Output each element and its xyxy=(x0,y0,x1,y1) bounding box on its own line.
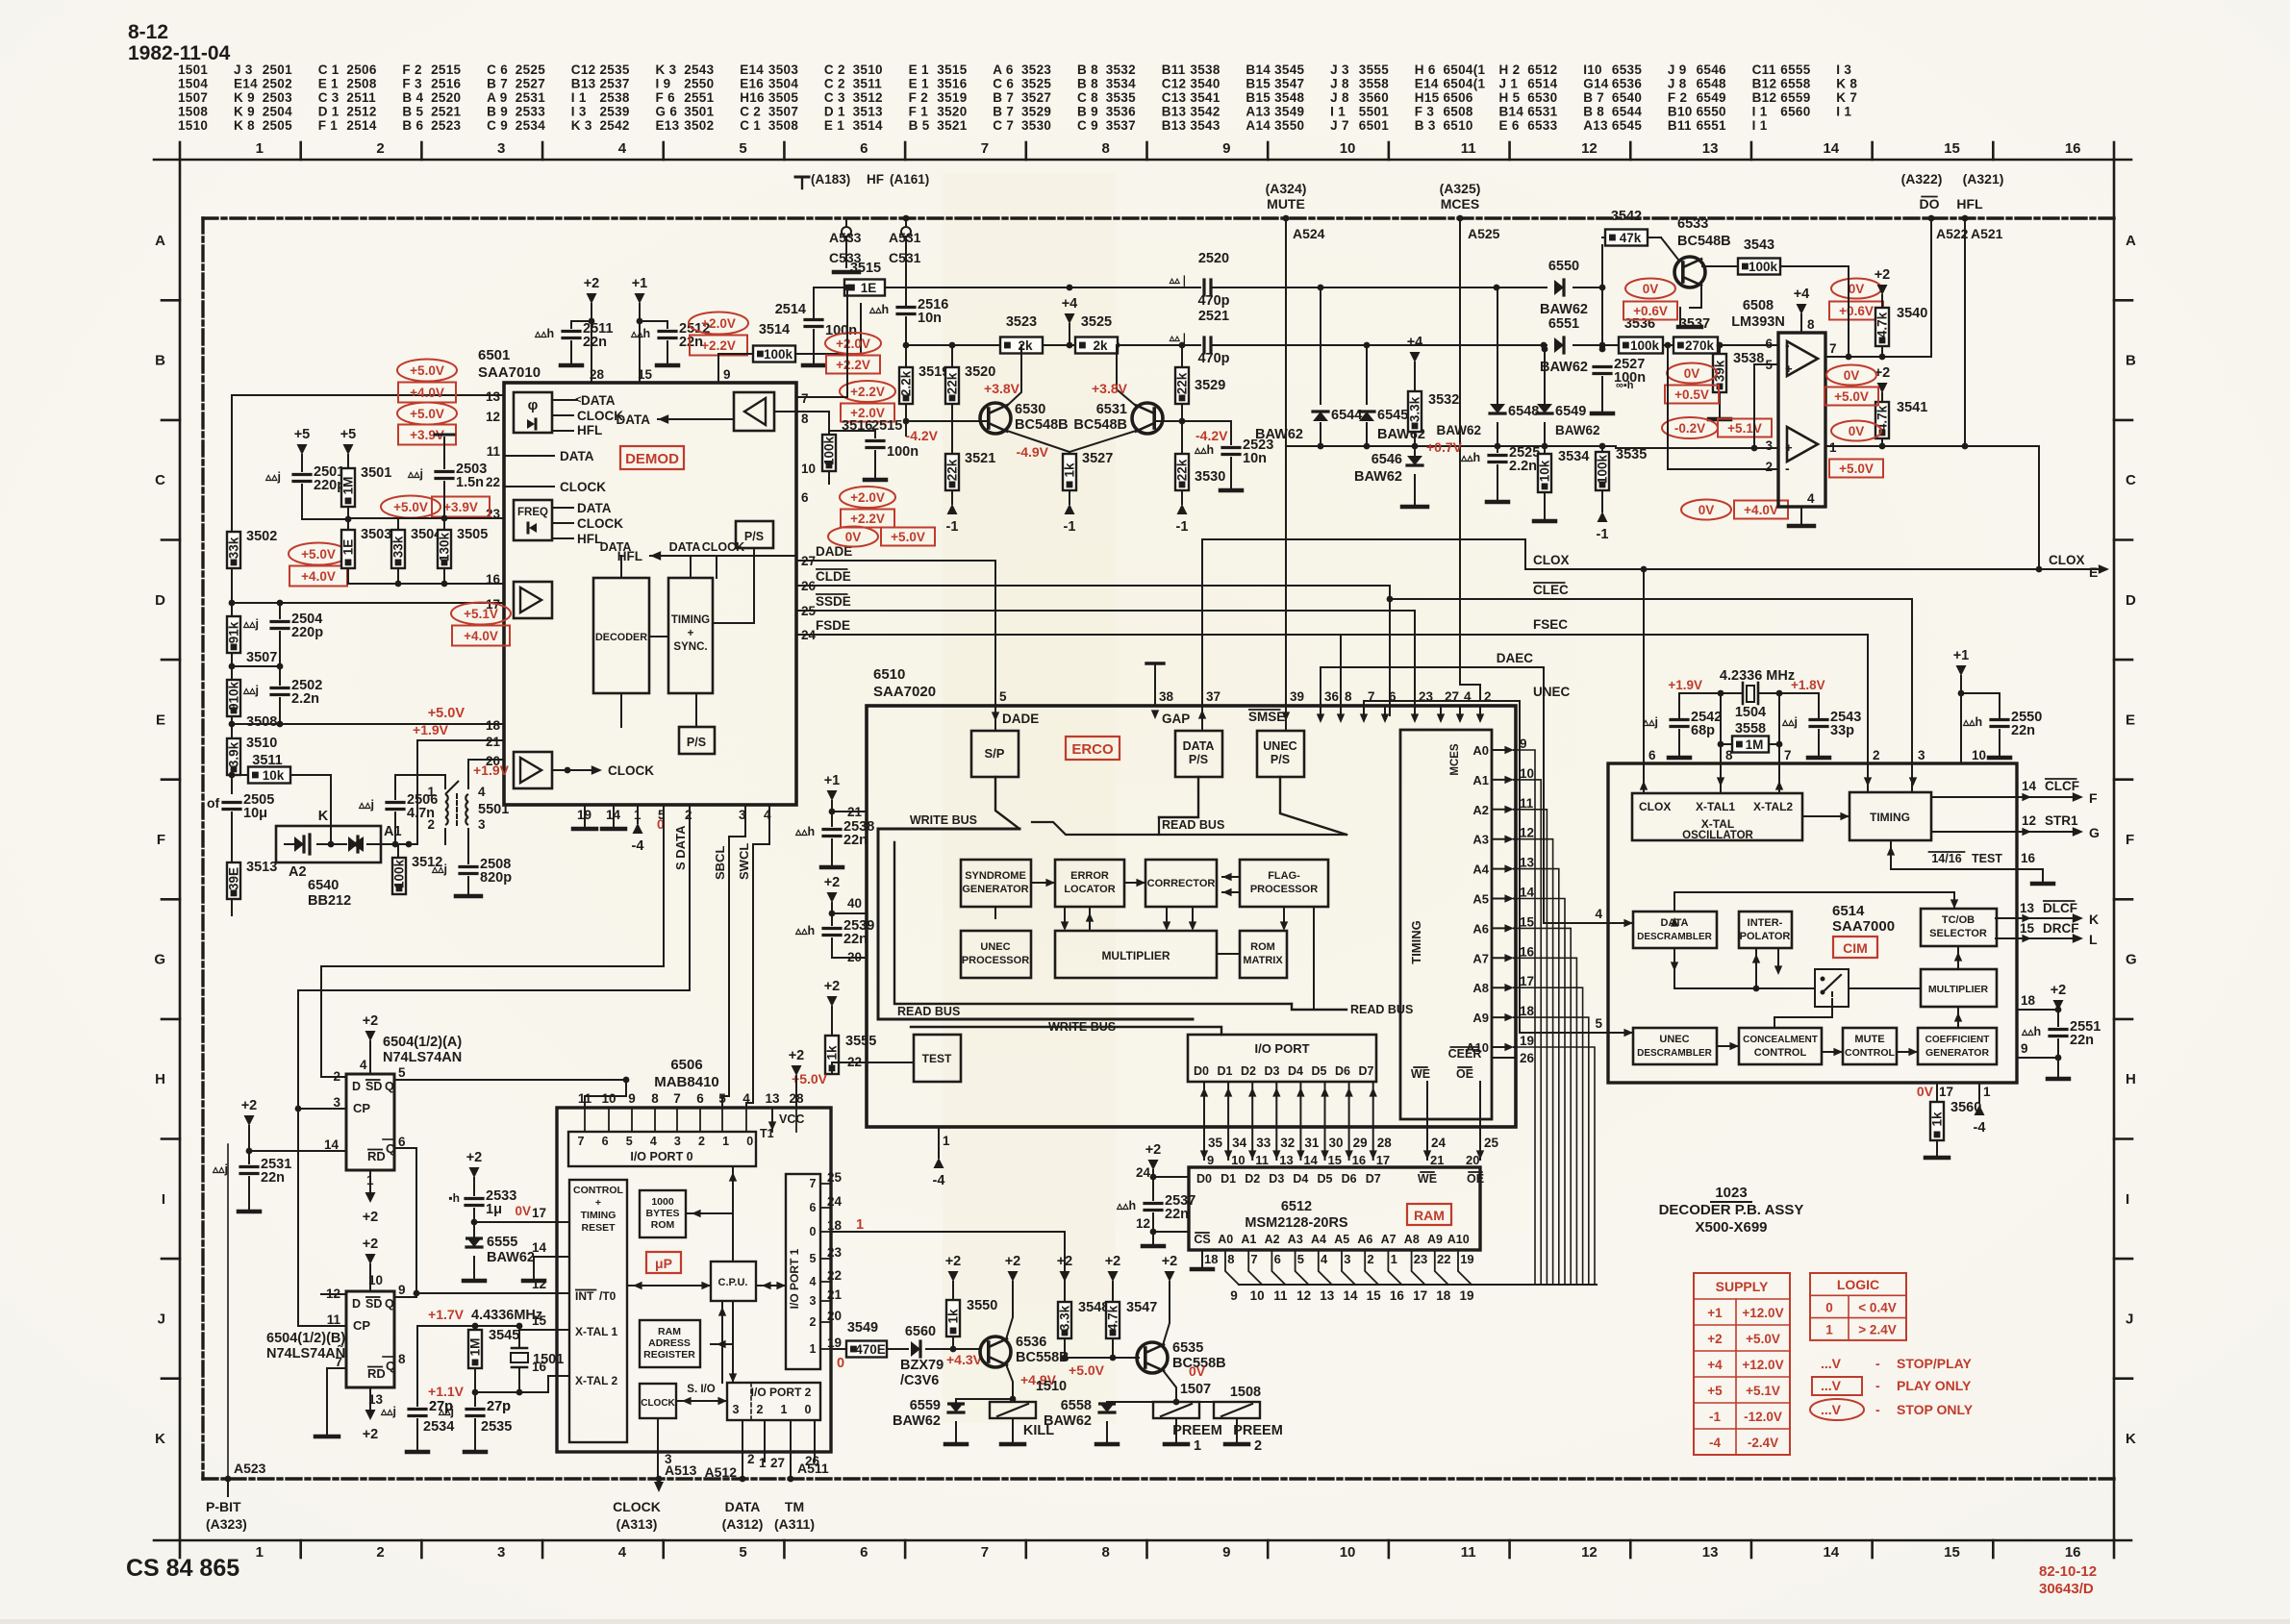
svg-text:BAW62: BAW62 xyxy=(1540,302,1588,317)
svg-text:GAP: GAP xyxy=(1162,712,1190,726)
svg-text:E13: E13 xyxy=(656,118,680,133)
svg-text:1501: 1501 xyxy=(178,62,208,77)
svg-text:K: K xyxy=(318,809,329,824)
svg-text:+1.9V: +1.9V xyxy=(1668,678,1702,692)
svg-text:1: 1 xyxy=(943,1134,950,1148)
svg-text:DADE: DADE xyxy=(1002,712,1039,726)
svg-text:2535: 2535 xyxy=(481,1419,512,1435)
svg-text:19: 19 xyxy=(1459,1288,1473,1303)
svg-text:6: 6 xyxy=(860,140,868,157)
capacitor 2508 820p xyxy=(460,865,477,868)
resistor 3504 33k xyxy=(391,530,405,568)
svg-text:22k: 22k xyxy=(945,459,960,481)
svg-text:18: 18 xyxy=(827,1218,843,1233)
svg-text:3529: 3529 xyxy=(1195,378,1225,393)
svg-text:RAM: RAM xyxy=(658,1326,681,1337)
svg-text:+5.0V: +5.0V xyxy=(301,547,336,562)
capacitor 2512 22n xyxy=(640,320,667,322)
transistor 6535 BC558B xyxy=(1137,1342,1168,1373)
svg-text:MULTIPLIER: MULTIPLIER xyxy=(1101,949,1170,962)
svg-text:1508: 1508 xyxy=(1230,1385,1261,1400)
svg-text:17: 17 xyxy=(1376,1153,1390,1167)
svg-text:2511: 2511 xyxy=(346,90,376,105)
svg-text:1E: 1E xyxy=(341,539,356,556)
svg-text:3560: 3560 xyxy=(1359,90,1389,105)
svg-text:2531: 2531 xyxy=(516,90,545,105)
svg-text:100k: 100k xyxy=(1596,454,1610,484)
svg-text:2534: 2534 xyxy=(516,118,545,133)
svg-text:A9: A9 xyxy=(1472,1011,1489,1025)
svg-text:14: 14 xyxy=(2022,779,2037,793)
svg-text:3515: 3515 xyxy=(937,62,967,77)
svg-text:12: 12 xyxy=(486,410,500,424)
svg-text:B11: B11 xyxy=(1162,62,1186,77)
svg-text:K: K xyxy=(2126,1431,2136,1447)
svg-text:(A311): (A311) xyxy=(774,1516,815,1532)
svg-text:B13: B13 xyxy=(1162,105,1187,119)
svg-text:CS: CS xyxy=(1194,1233,1210,1246)
svg-text:1E: 1E xyxy=(861,281,877,295)
ground pin4 xyxy=(1800,507,1802,524)
svg-text:K 3: K 3 xyxy=(656,62,677,77)
svg-text:2512: 2512 xyxy=(346,105,376,119)
svg-text:J 3: J 3 xyxy=(234,62,253,77)
red callouts near 6501 left pins xyxy=(397,360,457,382)
svg-text:B 5: B 5 xyxy=(909,118,930,133)
svg-text:+5.0V: +5.0V xyxy=(1746,1332,1780,1346)
svg-text:+4: +4 xyxy=(1707,1358,1723,1372)
switch block cim xyxy=(1815,969,1849,1007)
svg-text:▵▵j: ▵▵j xyxy=(438,1405,454,1418)
svg-text:+2.2V: +2.2V xyxy=(701,338,736,353)
diode 6560 BZX79/C3V6 xyxy=(887,1348,908,1350)
svg-text:DATA: DATA xyxy=(669,540,701,554)
svg-text:2521: 2521 xyxy=(1198,309,1229,324)
GAP pin38 label xyxy=(1154,673,1156,706)
svg-text:BAW62: BAW62 xyxy=(487,1250,535,1265)
svg-text:+2: +2 xyxy=(363,1210,379,1225)
IC 6506 MAB8410 outline xyxy=(557,1108,831,1452)
svg-text:SD: SD xyxy=(365,1080,382,1093)
svg-text:ADRESS: ADRESS xyxy=(648,1337,691,1349)
svg-text:3545: 3545 xyxy=(1274,62,1304,77)
TIMING block cim xyxy=(1850,792,1931,840)
wire down to 6544 xyxy=(1320,287,1321,404)
svg-text:FREQ: FREQ xyxy=(517,507,548,518)
svg-text:1.5n: 1.5n xyxy=(456,475,484,490)
svg-text:H: H xyxy=(155,1071,165,1087)
svg-text:D7: D7 xyxy=(1366,1172,1381,1186)
svg-text:22k: 22k xyxy=(945,372,960,394)
pin37 arrow up xyxy=(1201,706,1203,716)
svg-text:0: 0 xyxy=(805,1403,812,1416)
svg-text:P/S: P/S xyxy=(744,530,764,543)
svg-text:6510: 6510 xyxy=(873,666,905,683)
svg-text:1508: 1508 xyxy=(178,105,208,119)
svg-text:21: 21 xyxy=(486,735,501,749)
svg-text:6510: 6510 xyxy=(1444,118,1473,133)
svg-text:0: 0 xyxy=(746,1135,753,1148)
CLCF STR1 outputs xyxy=(1931,796,2077,798)
svg-text:10: 10 xyxy=(1340,140,1356,157)
svg-text:6533: 6533 xyxy=(1677,216,1708,232)
resistor 3503 1E xyxy=(341,530,355,568)
svg-text:FSEC: FSEC xyxy=(1533,617,1568,632)
UNEC PROCESSOR block xyxy=(961,931,1031,978)
svg-text:+4.3V: +4.3V xyxy=(946,1352,983,1367)
svg-text:+2: +2 xyxy=(824,875,841,890)
svg-text:9: 9 xyxy=(2021,1041,2028,1056)
svg-text:S DATA: S DATA xyxy=(673,825,688,870)
svg-text:CLOX: CLOX xyxy=(1639,800,1671,813)
wire line1 from 3515 right xyxy=(885,287,1200,288)
svg-text:1507: 1507 xyxy=(178,90,208,105)
red callouts comparator inputs xyxy=(1667,363,1717,384)
svg-text:+2: +2 xyxy=(363,1237,379,1252)
cpu arrows xyxy=(732,1166,734,1262)
svg-text:3543: 3543 xyxy=(1744,237,1774,253)
svg-text:10: 10 xyxy=(801,462,816,476)
svg-text:A2: A2 xyxy=(289,864,307,880)
svg-text:-4: -4 xyxy=(933,1173,945,1188)
svg-text:▵▵j: ▵▵j xyxy=(431,862,447,876)
svg-text:HF: HF xyxy=(867,172,884,187)
svg-text:-: - xyxy=(1785,461,1790,476)
svg-text:▵▵j: ▵▵j xyxy=(407,467,423,481)
svg-text:9: 9 xyxy=(398,1283,406,1297)
svg-text:10: 10 xyxy=(1972,748,1986,762)
phase detector block inside 6501 xyxy=(514,392,552,433)
svg-text:-4: -4 xyxy=(1709,1436,1721,1450)
svg-text:▵▵h: ▵▵h xyxy=(1962,715,1982,729)
svg-text:30643/D: 30643/D xyxy=(2039,1581,2094,1597)
svg-text:47k: 47k xyxy=(1620,231,1642,245)
supply +5 arrow 3501 xyxy=(343,444,354,455)
svg-text:6504(1: 6504(1 xyxy=(1444,62,1486,77)
frame left edge with row letters xyxy=(179,160,182,1540)
svg-text:22n: 22n xyxy=(843,833,868,848)
svg-text:13: 13 xyxy=(1702,140,1719,157)
wire SBCL from pin3 xyxy=(744,805,746,837)
svg-text:3537: 3537 xyxy=(1106,118,1136,133)
svg-text:9: 9 xyxy=(1222,140,1230,157)
svg-text:TIMING: TIMING xyxy=(1870,811,1910,824)
svg-text:J 3: J 3 xyxy=(1330,62,1349,77)
svg-text:0V: 0V xyxy=(1699,503,1715,517)
svg-text:22n: 22n xyxy=(679,335,703,350)
svg-text:G: G xyxy=(154,952,165,968)
svg-text:I10: I10 xyxy=(1583,62,1602,77)
RAM red label xyxy=(1407,1204,1451,1225)
svg-text:9: 9 xyxy=(1222,1544,1230,1561)
pin 3 CLEC down xyxy=(1909,777,1917,787)
svg-text:P-BIT: P-BIT xyxy=(206,1499,241,1514)
svg-text:(A323): (A323) xyxy=(206,1516,247,1532)
svg-text:6: 6 xyxy=(1274,1252,1281,1266)
svg-text:15: 15 xyxy=(1520,914,1535,929)
svg-text:SBCL: SBCL xyxy=(713,846,727,880)
svg-text:+1.8V: +1.8V xyxy=(1791,678,1825,692)
svg-text:G 6: G 6 xyxy=(656,105,678,119)
svg-text:3541: 3541 xyxy=(1897,400,1927,415)
svg-text:19: 19 xyxy=(1520,1034,1534,1048)
svg-text:UNEC: UNEC xyxy=(980,941,1010,953)
svg-text:3514: 3514 xyxy=(853,118,883,133)
svg-text:3508: 3508 xyxy=(768,118,798,133)
svg-text:1: 1 xyxy=(256,140,264,157)
svg-text:-1: -1 xyxy=(1176,519,1189,535)
DATA CLOCK inputs mid xyxy=(504,455,554,457)
svg-text:TEST: TEST xyxy=(922,1052,952,1065)
svg-text:A6: A6 xyxy=(1472,921,1489,936)
svg-text:+2.0V: +2.0V xyxy=(850,490,885,505)
svg-text:3530: 3530 xyxy=(1021,118,1051,133)
svg-text:3548: 3548 xyxy=(1078,1300,1109,1315)
svg-text:22n: 22n xyxy=(2011,723,2035,738)
svg-text:Q: Q xyxy=(386,1359,395,1373)
wire P-BIT vertical to FF xyxy=(227,1144,229,1479)
svg-text:BAW62: BAW62 xyxy=(1354,469,1402,485)
svg-text:24: 24 xyxy=(1431,1136,1447,1150)
diode 6544 BAW62 xyxy=(1313,412,1328,421)
svg-text:100k: 100k xyxy=(822,436,837,465)
svg-text:D: D xyxy=(2126,592,2136,609)
svg-text:+5: +5 xyxy=(340,427,357,442)
wire CLOX line from pin 37 xyxy=(1202,539,1525,716)
wire 3511 to K of 6540 xyxy=(290,775,331,838)
svg-text:C.P.U.: C.P.U. xyxy=(718,1277,748,1288)
svg-text:+4: +4 xyxy=(1407,335,1423,350)
svg-text:D 1: D 1 xyxy=(824,105,845,119)
svg-text:D7: D7 xyxy=(1359,1064,1374,1078)
svg-text:S/P: S/P xyxy=(985,746,1005,761)
FREQ DATA CLOCK HFL labels xyxy=(552,507,573,509)
svg-text:TIMING: TIMING xyxy=(1409,920,1423,964)
wire 3515 left to 2514 xyxy=(814,287,844,317)
svg-text:CLCF: CLCF xyxy=(2045,779,2079,793)
svg-text:13: 13 xyxy=(1702,1544,1719,1561)
svg-text:BC558B: BC558B xyxy=(1016,1350,1070,1365)
capacitor 2527 100n xyxy=(1601,345,1603,363)
svg-text:B12: B12 xyxy=(1752,90,1777,105)
svg-text:C 6: C 6 xyxy=(993,77,1014,91)
svg-text:TIMING: TIMING xyxy=(581,1210,617,1221)
svg-text:A0: A0 xyxy=(1218,1233,1233,1246)
svg-text:25: 25 xyxy=(827,1170,843,1185)
ground pins 19 14 xyxy=(584,805,586,827)
svg-text:+5.0V: +5.0V xyxy=(410,363,444,378)
svg-text:130k: 130k xyxy=(438,532,452,562)
svg-text:(A321): (A321) xyxy=(1963,171,2004,187)
svg-text:BAW62: BAW62 xyxy=(1044,1413,1092,1429)
svg-text:+2.2V: +2.2V xyxy=(850,385,885,399)
svg-text:4: 4 xyxy=(1807,491,1815,506)
flip-flop 6504(1/2)(B) N74LS74AN xyxy=(346,1291,394,1387)
svg-text:+5.0V: +5.0V xyxy=(428,706,466,721)
transistor 6533 BC548B xyxy=(1674,257,1705,287)
svg-text:A525: A525 xyxy=(1468,226,1500,241)
svg-text:CONTROL: CONTROL xyxy=(573,1185,623,1196)
svg-text:6550: 6550 xyxy=(1697,105,1726,119)
svg-text:UNEC: UNEC xyxy=(1533,685,1571,699)
svg-text:TC/OB: TC/OB xyxy=(1942,914,1975,926)
svg-text:22: 22 xyxy=(1437,1252,1450,1266)
svg-text:▵▵j: ▵▵j xyxy=(264,470,281,484)
P-BIT tap A523 (A323) xyxy=(225,1476,232,1483)
svg-text:-1: -1 xyxy=(1597,527,1609,542)
svg-text:6536: 6536 xyxy=(1612,77,1642,91)
wire node to 47k and down xyxy=(1601,245,1603,349)
svg-text:100k: 100k xyxy=(392,859,407,888)
svg-text:LOGIC: LOGIC xyxy=(1837,1277,1879,1292)
svg-text:5: 5 xyxy=(626,1135,633,1148)
svg-text:3541: 3541 xyxy=(1190,90,1220,105)
svg-text:15: 15 xyxy=(1367,1288,1382,1303)
svg-text:I 3: I 3 xyxy=(1836,62,1851,77)
svg-text:D3: D3 xyxy=(1265,1064,1280,1078)
DATA P/S block xyxy=(1175,731,1222,777)
svg-text:1: 1 xyxy=(1194,1438,1201,1454)
svg-text:DESCRAMBLER: DESCRAMBLER xyxy=(1637,1048,1713,1059)
svg-text:G: G xyxy=(2126,952,2137,968)
svg-text:3: 3 xyxy=(497,140,505,157)
svg-text:2538: 2538 xyxy=(600,90,630,105)
svg-text:CIM: CIM xyxy=(1843,940,1868,956)
svg-text:D5: D5 xyxy=(1312,1064,1327,1078)
svg-text:7: 7 xyxy=(1829,341,1837,356)
svg-text:3555: 3555 xyxy=(845,1034,876,1049)
wire address bundle verticals from SAA7020 xyxy=(1516,750,1535,1285)
svg-text:A7: A7 xyxy=(1381,1233,1397,1246)
svg-text:37: 37 xyxy=(1206,689,1220,704)
svg-text:22: 22 xyxy=(486,475,500,489)
svg-text:2: 2 xyxy=(685,808,692,822)
svg-text:6548: 6548 xyxy=(1508,404,1539,419)
TEST block xyxy=(914,1035,961,1082)
svg-text:I 1: I 1 xyxy=(571,90,587,105)
wire CLEC line xyxy=(1390,598,1912,600)
svg-text:7: 7 xyxy=(673,1091,681,1106)
UNEC P/S block xyxy=(1257,731,1304,777)
svg-text:▵▵h: ▵▵h xyxy=(1460,451,1480,464)
diode 6559 BAW62 xyxy=(955,1399,957,1404)
svg-text:F 1: F 1 xyxy=(318,118,339,133)
wire line2 from 2516 node xyxy=(906,344,981,346)
svg-text:A5: A5 xyxy=(1472,892,1489,907)
svg-text:3513: 3513 xyxy=(853,105,883,119)
svg-text:3521: 3521 xyxy=(965,451,995,466)
svg-text:+0.7V: +0.7V xyxy=(1426,439,1463,455)
svg-text:3505: 3505 xyxy=(457,527,488,542)
svg-text:< 0.4V: < 0.4V xyxy=(1858,1300,1896,1314)
supply +5 arrow 2501 xyxy=(297,444,308,455)
svg-text:2k: 2k xyxy=(1093,338,1108,353)
svg-text:2: 2 xyxy=(376,140,384,157)
svg-text:3504: 3504 xyxy=(768,77,798,91)
svg-text:A13: A13 xyxy=(1583,118,1608,133)
svg-text:10k: 10k xyxy=(1538,460,1552,482)
svg-text:6546: 6546 xyxy=(1697,62,1726,77)
svg-text:E: E xyxy=(156,712,165,728)
svg-text:3530: 3530 xyxy=(1195,469,1225,485)
svg-text:F 2: F 2 xyxy=(402,62,421,77)
svg-text:19: 19 xyxy=(827,1336,842,1350)
capacitor 2535 27p xyxy=(474,1392,476,1406)
svg-text:23: 23 xyxy=(1414,1252,1427,1266)
svg-text:B 5: B 5 xyxy=(402,105,423,119)
svg-text:I 1: I 1 xyxy=(1752,118,1768,133)
svg-text:5: 5 xyxy=(1595,1016,1602,1031)
svg-text:DRCF: DRCF xyxy=(2043,921,2079,936)
svg-text:+4: +4 xyxy=(1794,287,1810,302)
svg-text:DECODER: DECODER xyxy=(595,632,647,643)
svg-text:8: 8 xyxy=(1807,317,1815,332)
svg-text:BZX79: BZX79 xyxy=(900,1358,944,1373)
svg-text:1: 1 xyxy=(781,1403,788,1416)
svg-text:5: 5 xyxy=(718,1091,726,1106)
svg-text:6533: 6533 xyxy=(1527,118,1557,133)
svg-text:4.4336MHz: 4.4336MHz xyxy=(471,1308,542,1323)
svg-text:12: 12 xyxy=(1296,1288,1311,1303)
diode 6555 BAW62 xyxy=(473,1222,475,1238)
svg-text:4: 4 xyxy=(742,1091,750,1106)
svg-text:+: + xyxy=(1785,440,1793,455)
svg-text:F 3: F 3 xyxy=(402,77,422,91)
svg-text:1504: 1504 xyxy=(178,77,208,91)
svg-text:8: 8 xyxy=(651,1091,659,1106)
flip-flop 6504(1/2)(A) N74LS74AN xyxy=(346,1074,394,1170)
svg-text:13: 13 xyxy=(1320,1288,1335,1303)
svg-text:J: J xyxy=(158,1311,165,1327)
CONCEALMENT CONTROL block xyxy=(1739,1028,1822,1064)
svg-text:CLOCK: CLOCK xyxy=(702,540,744,554)
svg-text:0: 0 xyxy=(837,1356,844,1371)
svg-text:-0.2V: -0.2V xyxy=(1674,421,1705,436)
svg-text:12: 12 xyxy=(1520,826,1534,840)
wire pin2 line from 3536/3537 node xyxy=(1668,345,1778,469)
svg-text:A9: A9 xyxy=(1427,1233,1443,1246)
svg-text:91k: 91k xyxy=(227,621,241,643)
svg-text:8: 8 xyxy=(1345,689,1352,704)
svg-text:C12: C12 xyxy=(571,62,596,77)
svg-text:▵▵j: ▵▵j xyxy=(242,684,259,697)
svg-text:BAW62: BAW62 xyxy=(1555,423,1600,437)
wire pin5/pin3 tie xyxy=(1754,364,1778,448)
svg-text:14: 14 xyxy=(1823,140,1839,157)
svg-text:1: 1 xyxy=(1391,1252,1397,1266)
write bus upper xyxy=(878,828,1019,831)
svg-text:RESET: RESET xyxy=(581,1222,616,1234)
svg-text:HFL: HFL xyxy=(577,423,602,437)
svg-text:3501: 3501 xyxy=(684,105,714,119)
svg-text:3525: 3525 xyxy=(1081,314,1112,330)
resistor 3540 4.7k xyxy=(1877,285,1888,295)
svg-text:BB212: BB212 xyxy=(308,893,351,909)
svg-text:SUPPLY: SUPPLY xyxy=(1716,1279,1769,1294)
assembly boundary dash-dot border xyxy=(203,216,2114,219)
svg-text:+1.1V: +1.1V xyxy=(428,1384,465,1399)
svg-text:Q: Q xyxy=(385,1297,394,1311)
svg-text:+4.0V: +4.0V xyxy=(410,386,444,400)
svg-text:D2: D2 xyxy=(1245,1172,1260,1186)
svg-text:6: 6 xyxy=(398,1135,406,1149)
svg-text:+4.0V: +4.0V xyxy=(301,569,336,584)
svg-text:MULTIPLIER: MULTIPLIER xyxy=(1928,984,1989,995)
svg-text:14: 14 xyxy=(1823,1544,1839,1561)
svg-text:▵▵h: ▵▵h xyxy=(1194,443,1214,457)
svg-text:LOCATOR: LOCATOR xyxy=(1064,884,1115,895)
svg-text:3529: 3529 xyxy=(1021,105,1051,119)
